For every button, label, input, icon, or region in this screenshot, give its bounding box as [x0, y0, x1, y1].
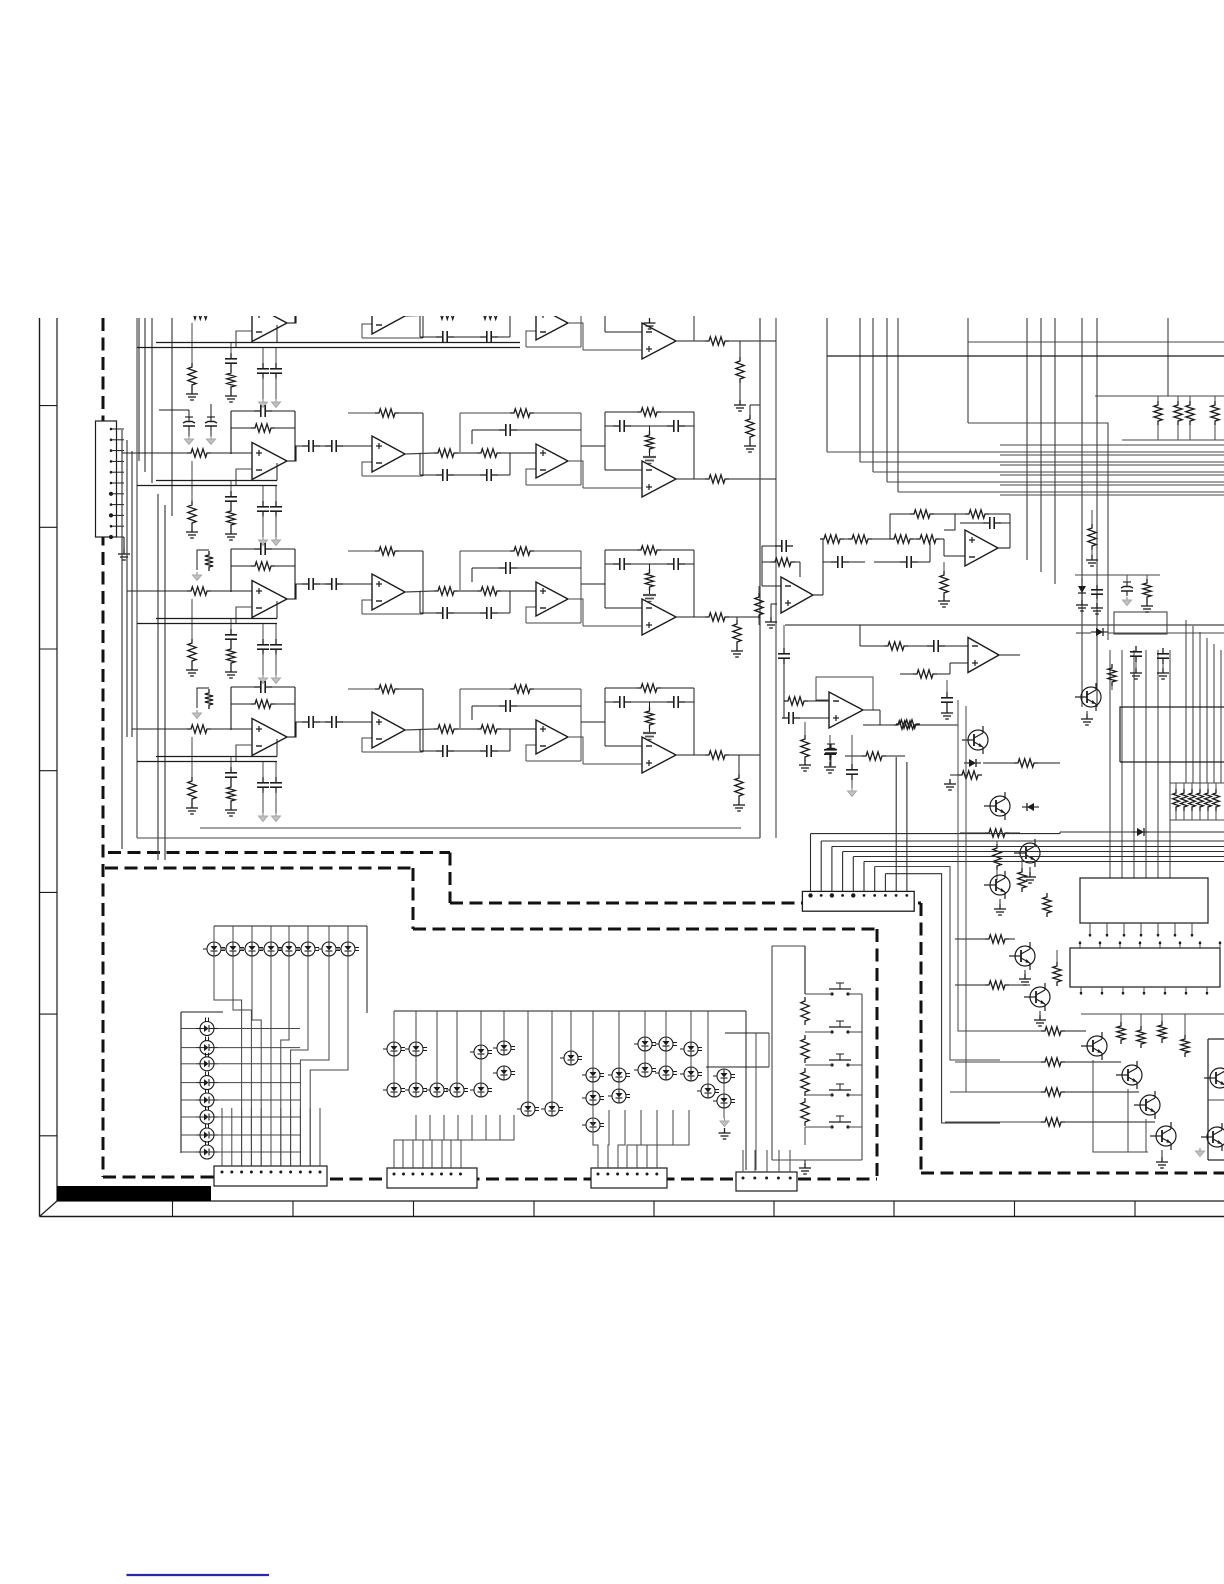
wire LED col: [181, 1082, 196, 1084]
wire center riser: [644, 1011, 646, 1037]
wire s3s4 rowD: [581, 721, 605, 723]
wire LED riser: [288, 926, 290, 942]
transistor Q12 edge: [1210, 1068, 1224, 1088]
wire bank feed: [1169, 650, 1171, 878]
connector CN1: [96, 421, 117, 537]
wire bank drop: [1220, 650, 1222, 783]
border corner diagonal: [40, 1201, 58, 1217]
capacitor CA6 coupling rowA: [325, 307, 332, 309]
capacitor CS1: [775, 545, 782, 547]
wire fan riser: [884, 874, 886, 896]
resistor RD6 rowD: [477, 725, 501, 733]
wire fb2 rowB: [348, 412, 375, 414]
wire rowD out: [729, 754, 760, 756]
LED L315: [521, 1102, 535, 1116]
capacitor CB6 coupling rowB: [325, 445, 332, 447]
wire mid rowB: [458, 452, 477, 454]
resistor RC11 load: [736, 617, 738, 621]
wire CN4 riser: [618, 1110, 625, 1168]
LED L324: [612, 1089, 626, 1103]
IC B bottom pin: [1122, 987, 1124, 995]
border zone tick B4: [533, 1201, 535, 1217]
wire bank rail: [1095, 395, 1224, 397]
resistor RQ12: [1041, 1088, 1065, 1096]
transistor Q13 edge: [1207, 1127, 1224, 1147]
ground Q6: [1039, 1011, 1041, 1015]
section divider line: [785, 624, 1224, 626]
wire opamp2 out rowA: [405, 315, 434, 316]
capacitor CB11 rowB: [667, 425, 674, 427]
wire s4 top rowC: [605, 549, 637, 551]
wire sum4 out: [863, 709, 880, 711]
wire sum4 fb: [816, 677, 873, 710]
transistor Q4: [990, 875, 1010, 895]
wire midc rowB: [420, 474, 436, 476]
filter block enclosure right: [759, 318, 761, 838]
wire bus vertical top: [1167, 318, 1169, 396]
wire center riser: [665, 1011, 667, 1037]
wire bus vertical: [144, 318, 146, 472]
wire bank2 rail top: [1170, 782, 1224, 784]
wire opamp1 out rowC: [287, 584, 302, 599]
op-amp UD1 rowD: [252, 719, 287, 756]
resistor RD8 feedback rowD: [637, 684, 661, 692]
wire LED riser: [307, 926, 309, 942]
wire fb3 frame rowD: [460, 688, 510, 690]
wire row bus pair upper rowD: [156, 756, 277, 758]
resistor RQ17 v: [1181, 1035, 1189, 1057]
trimmer capacitor CT1: [183, 425, 195, 427]
capacitor CB10 rowB: [613, 425, 620, 427]
resistor RQ2: [958, 771, 982, 779]
resistor RQ19: [896, 720, 920, 728]
wire minus in rowA: [236, 331, 252, 348]
wire bus vertical top: [1040, 318, 1042, 572]
resistor RA9 center rowA: [645, 293, 653, 315]
resistor RB5 rowB: [434, 449, 458, 457]
wire LED col: [181, 1099, 196, 1101]
wire rowC: [211, 590, 252, 592]
connector CN3: [387, 1168, 477, 1188]
trimmer capacitor CT4: [1121, 590, 1133, 592]
wire CN1 pin stub: [111, 450, 124, 452]
wire midc rowA: [420, 336, 436, 338]
wire bank drop: [1206, 638, 1208, 783]
wire bus L bend: [898, 491, 1224, 493]
transistor Q1: [968, 730, 988, 750]
wire bus nest: [1000, 464, 1224, 466]
ground Q10: [1161, 1150, 1163, 1157]
IC B bottom pin: [1101, 987, 1103, 995]
wire LED riser: [328, 926, 330, 942]
resistor RB3 shunt rowB: [191, 461, 193, 501]
wire bus vertical top: [872, 318, 874, 472]
wire couple rowA: [320, 307, 325, 309]
wire CN5b riser: [754, 1150, 756, 1172]
capacitor CB5 coupling rowB: [302, 445, 309, 447]
LED L312: [450, 1083, 464, 1097]
wire CN1 pin stub: [111, 471, 124, 473]
wire LED link: [690, 1056, 692, 1067]
dashed boundary main bottom to connector: [103, 1176, 215, 1179]
page border left inner line: [56, 318, 58, 1201]
wire bus vertical: [157, 494, 159, 860]
resistor RB1 bank2: [1173, 789, 1180, 811]
op-amp US2: [965, 530, 998, 566]
op-amp UD2 rowD: [372, 712, 405, 748]
dashed boundary B bottom: [330, 1178, 877, 1181]
capacitor CD8 rowD: [480, 750, 487, 752]
IC B bottom pin: [1164, 987, 1166, 995]
wire sum3 out: [999, 654, 1020, 656]
op-amp UA1 rowA: [252, 305, 287, 342]
resistor RL2 ladder: [801, 1035, 809, 1063]
wire rowC out: [729, 616, 760, 618]
wire opamp2 out rowD: [405, 729, 434, 730]
wire bus vertical top: [693, 318, 695, 341]
LED L23: [200, 1057, 214, 1071]
wire CN1 pin stub: [111, 504, 124, 506]
capacitor CD4 shunt rowD: [275, 762, 277, 778]
capacitor CC2 shunt rowC: [230, 619, 232, 631]
transistor Q8: [1122, 1065, 1142, 1085]
capacitor CA11 rowA: [667, 287, 674, 289]
wire bus vertical top: [886, 318, 888, 482]
capacitor CC7 rowC: [436, 612, 443, 614]
LED L311: [430, 1083, 444, 1097]
resistor RA6 rowA: [477, 311, 501, 319]
resistor RQ18 v: [1108, 664, 1116, 686]
LED L21: [200, 1022, 214, 1036]
resistor RT4 bank: [1211, 401, 1219, 425]
capacitor CA2 shunt rowA: [230, 343, 232, 355]
wire CN1 pin stub: [111, 439, 124, 441]
op-amp UC1 rowC: [252, 581, 287, 618]
LED L35: [564, 1051, 578, 1065]
wire s4 top rowB: [605, 411, 637, 413]
LED L313: [474, 1083, 488, 1097]
wire LED drop: [233, 956, 251, 1166]
wire feedback frame rowC: [231, 565, 251, 567]
capacitor CC11 rowC: [667, 563, 674, 565]
capacitor CB1 feedback rowB: [254, 410, 261, 412]
wire long vertical x776: [775, 318, 777, 838]
resistor RT1 bank: [1154, 401, 1162, 425]
wire LED top rail: [214, 925, 367, 927]
ground Q3: [1029, 867, 1031, 872]
resistor RV1 v: [1091, 510, 1093, 525]
resistor RB2 feedback rowB: [251, 424, 275, 432]
switch block frame: [771, 946, 773, 1160]
resistor RB9 center rowB: [645, 431, 653, 453]
wire bus horizontal dark: [827, 355, 1224, 357]
LED column frame: [180, 1012, 182, 1153]
wire center riser: [393, 1011, 395, 1042]
wire LED col: [181, 1047, 196, 1049]
wire sum1 fb: [813, 594, 823, 596]
wire row bus pair upper rowC: [156, 618, 277, 620]
LED L322: [701, 1084, 715, 1098]
wire fan riser: [874, 867, 876, 896]
LED L13: [245, 942, 259, 956]
page border bottom inner line: [57, 1200, 1224, 1202]
wire right cluster frame: [725, 1032, 769, 1034]
resistor RQ7: [985, 935, 1009, 943]
LED L26: [200, 1110, 214, 1124]
border zone tick L4: [40, 770, 58, 772]
capacitor CD7 rowD: [436, 750, 443, 752]
op-amp UD4 rowD: [642, 737, 676, 773]
wire center riser: [503, 1011, 505, 1041]
border zone tick B8: [1014, 1201, 1016, 1217]
wire bus vertical top: [1054, 318, 1056, 584]
resistor RC10 output rowC: [705, 613, 729, 621]
resistor RA2 feedback rowA: [251, 286, 275, 294]
IC B top pin: [1139, 941, 1141, 948]
resistor RS3 fb: [820, 535, 844, 543]
wire bank feed: [1157, 650, 1159, 878]
junction box right: [1114, 612, 1167, 634]
wire s3s4 rowB: [581, 445, 605, 447]
IC B top pin: [1219, 941, 1221, 948]
dashed boundary B horizontal top: [105, 867, 413, 870]
wire bus vertical top: [1096, 318, 1098, 707]
wire center riser: [415, 1011, 417, 1042]
wire rowB out: [729, 478, 776, 480]
dashed boundary A horizontal mid: [450, 902, 921, 905]
capacitor CA8 rowA: [480, 336, 487, 338]
wire LED drop: [214, 956, 242, 1166]
IC block B: [1070, 948, 1220, 987]
IC B top pin: [1159, 941, 1161, 948]
wire feedback top rowC: [231, 548, 254, 550]
resistor RB7 feedback rowB: [510, 409, 534, 417]
wire bank2 rail bottom: [1170, 819, 1224, 821]
transistor Q10: [1156, 1126, 1176, 1146]
LED L325: [586, 1118, 600, 1132]
wire bus vertical top: [1081, 318, 1083, 707]
wire bus vertical: [171, 318, 173, 516]
border zone tick L6: [40, 1013, 58, 1015]
border zone tick B3: [413, 1201, 415, 1217]
capacitor CB2 shunt rowB: [230, 481, 232, 493]
wire bus L bend: [873, 471, 1224, 473]
wire fan run: [853, 856, 1224, 858]
dashed boundary A bottom right: [921, 1172, 1224, 1175]
wire s4 in rowC: [605, 607, 642, 609]
wire feedback frame rowD: [231, 703, 251, 705]
wire bus L bend: [827, 451, 1224, 453]
IC A pin: [1089, 923, 1091, 937]
border zone tick B1: [172, 1201, 174, 1217]
border zone tick B6: [773, 1201, 775, 1217]
capacitor CC8 rowC: [480, 612, 487, 614]
wire bus vertical top: [1026, 318, 1028, 560]
wire rowD: [211, 728, 252, 730]
wire long v3: [958, 700, 1000, 1031]
resistor RC3 shunt rowC: [191, 599, 193, 639]
wire mid rowC: [458, 590, 477, 592]
wire fan riser: [842, 852, 844, 896]
border zone tick B9: [1134, 1201, 1136, 1217]
resistor RA10 output rowA: [705, 337, 729, 345]
wire fan riser: [820, 841, 822, 895]
wire LED drop: [300, 956, 329, 1166]
resistor RS10: [884, 642, 908, 650]
resistor RS4 fb: [848, 535, 872, 543]
wire s4 top rowD: [605, 687, 637, 689]
wire LED link: [592, 1082, 594, 1091]
ground US1: [771, 603, 777, 605]
wire CN3 riser: [461, 1115, 514, 1168]
wire couple rowD: [320, 721, 325, 723]
LED L28: [200, 1145, 214, 1159]
page border bottom outer line: [40, 1216, 1224, 1218]
wire CN1 pin stub: [111, 525, 124, 527]
wire rowA: [211, 314, 252, 316]
wire LED link: [393, 1056, 395, 1083]
wire bank drop: [1199, 632, 1201, 783]
IC B bottom pin: [1206, 987, 1208, 995]
wire CN1 pin stub: [111, 536, 124, 538]
resistor RQ14 v: [1117, 1022, 1125, 1044]
wire center riser: [527, 1011, 529, 1102]
wire CN4 riser: [657, 1110, 689, 1168]
LED L16: [301, 942, 315, 956]
resistor RS13 shunt: [804, 722, 806, 738]
resistor RT3 bank: [1186, 401, 1194, 425]
wire center riser: [436, 1011, 438, 1083]
op-amp UC4 rowC: [642, 599, 676, 635]
wire bus vertical: [121, 430, 123, 849]
wire center rail: [394, 1010, 746, 1012]
wire bus L bend: [887, 481, 1224, 483]
diode D3: [1096, 628, 1103, 636]
wire ladder top: [804, 946, 806, 994]
resistor RA1 input rowA: [187, 311, 211, 319]
wire LED link: [723, 1108, 725, 1118]
blue footer line: [127, 1574, 270, 1576]
wire CN4 riser: [627, 1110, 641, 1168]
capacitor CQ1: [1135, 646, 1137, 652]
wire midc rowD: [420, 750, 436, 752]
resistor RB4 feedback rowB: [375, 409, 399, 417]
capacitor CD3 shunt rowD: [262, 762, 264, 778]
wire row bus pair lower rowB: [137, 485, 277, 487]
LED L39: [387, 1083, 401, 1097]
resistor RB4 bank2: [1197, 789, 1204, 811]
resistor RQ4 v: [996, 841, 998, 845]
wire center riser: [707, 1011, 709, 1084]
wire bus nest: [1000, 474, 1224, 476]
wire bus vertical: [151, 318, 153, 483]
LED L11: [207, 942, 221, 956]
capacitor CA10 rowA: [613, 287, 620, 289]
resistor RD1 input rowD: [187, 725, 211, 733]
resistor RD2 feedback rowD: [251, 700, 275, 708]
wire bus horizontal 2: [968, 341, 1224, 343]
capacitor CD10 rowD: [613, 701, 620, 703]
wire LED riser: [251, 926, 253, 942]
top right box: [1120, 707, 1224, 762]
resistor RC1 input rowC: [187, 587, 211, 595]
resistor RL3 ladder: [801, 1068, 809, 1096]
wire bus jog: [968, 423, 1108, 640]
LED L24: [200, 1076, 214, 1090]
resistor RT2 bank: [1174, 401, 1182, 425]
wire CN5b riser: [766, 1150, 768, 1172]
ground center: [724, 1118, 726, 1121]
wire row bus pair lower rowC: [137, 623, 277, 625]
wire CN5b riser: [789, 1150, 791, 1172]
wire fb3 frame rowB: [460, 412, 510, 414]
filter block enclosure bottom: [137, 837, 760, 839]
wire feedback frame rowB: [231, 427, 251, 429]
ground stage4 rowB: [649, 453, 651, 457]
wire center riser: [480, 1011, 482, 1045]
ground rowA stage4: [649, 318, 651, 323]
dashed boundary A vertical jog: [449, 853, 452, 904]
wire center riser: [592, 1011, 594, 1068]
wire LED col: [181, 1116, 196, 1118]
LED L32: [409, 1042, 423, 1056]
capacitor CB8 rowB: [480, 474, 487, 476]
resistor RD4 feedback rowD: [375, 685, 399, 693]
resistor RS9 shunt: [943, 562, 945, 573]
wire LED drop: [291, 956, 308, 1166]
switch SW4: [830, 1093, 833, 1096]
diode D1: [969, 759, 976, 767]
wire bus vertical top: [759, 318, 761, 838]
capacitor CA3 shunt rowA: [262, 348, 264, 364]
capacitor CV1: [1096, 585, 1098, 590]
switch SW3: [830, 1063, 833, 1066]
wire fan run: [821, 840, 1224, 842]
resistor RB3 bank2: [1189, 789, 1196, 811]
IC A pin: [1191, 923, 1193, 937]
IC B bottom pin: [1080, 987, 1082, 995]
wire LED link: [480, 1059, 482, 1083]
resistor RS14: [862, 752, 886, 760]
filter block enclosure left: [136, 318, 138, 838]
wire fan run: [811, 833, 1061, 835]
wire LED drop: [270, 956, 272, 1166]
diode D5: [1137, 828, 1144, 836]
capacitor CS3: [900, 561, 907, 563]
connector CN4: [591, 1168, 667, 1188]
resistor RC5 rowC: [434, 587, 458, 595]
wire CN5 pin9 up: [895, 757, 897, 895]
resistor RQ15 v: [1137, 1026, 1145, 1048]
border zone tick L2: [40, 526, 58, 528]
wire emitter bus: [1093, 1060, 1148, 1152]
wire CN4 riser: [637, 1110, 657, 1168]
resistor RD3 shunt rowD: [191, 737, 193, 777]
resistor RB6 bank2: [1213, 789, 1220, 811]
capacitor CS8: [782, 717, 789, 719]
op-amp UB1 rowB: [252, 443, 287, 480]
wire center riser: [456, 1011, 458, 1083]
LED L319: [638, 1063, 652, 1077]
wire CN1 pin stub: [111, 493, 124, 495]
resistor RS15: [894, 721, 918, 729]
capacitor CB7 rowB: [436, 474, 443, 476]
wire s3s4 rowA: [581, 307, 605, 309]
wire fan run: [885, 874, 1000, 1123]
dashed boundary B vertical right: [876, 929, 879, 1178]
capacitor CS5: [783, 625, 785, 648]
wire IC B bus: [1081, 1013, 1224, 1015]
